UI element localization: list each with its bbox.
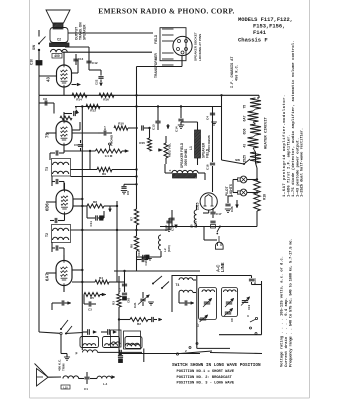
svg-text:R5: R5 bbox=[90, 296, 94, 300]
svg-text:3: 3 bbox=[247, 314, 249, 318]
svg-text:C19: C19 bbox=[247, 304, 251, 310]
svg-text:6A7: 6A7 bbox=[243, 115, 247, 121]
svg-text:SW: SW bbox=[32, 45, 36, 50]
svg-text:75: 75 bbox=[243, 105, 247, 109]
svg-text:R14: R14 bbox=[76, 97, 82, 101]
svg-text:LOOKING AT PINS: LOOKING AT PINS bbox=[198, 34, 202, 61]
svg-text:R1: R1 bbox=[64, 120, 68, 124]
svg-text:R4: R4 bbox=[99, 276, 103, 280]
svg-text:C7: C7 bbox=[196, 323, 200, 327]
svg-text:43: 43 bbox=[243, 144, 247, 148]
svg-text:43: 43 bbox=[46, 77, 51, 82]
svg-text:C4: C4 bbox=[206, 116, 210, 120]
svg-text:456 K.C.: 456 K.C. bbox=[236, 64, 240, 81]
svg-text:C10: C10 bbox=[137, 250, 141, 256]
svg-text:C10: C10 bbox=[30, 59, 34, 65]
svg-text:SPEAKER: SPEAKER bbox=[83, 24, 87, 40]
svg-text:C2: C2 bbox=[57, 38, 61, 42]
svg-text:R9: R9 bbox=[102, 172, 106, 176]
svg-text:POSITION NO. 3 - LONG WAVE: POSITION NO. 3 - LONG WAVE bbox=[177, 382, 235, 386]
svg-text:R18: R18 bbox=[263, 194, 267, 200]
svg-text:T2: T2 bbox=[45, 233, 49, 237]
svg-text:R7: R7 bbox=[130, 217, 134, 221]
svg-text:R16: R16 bbox=[103, 97, 109, 101]
svg-text:1—6D6 first I.F. amplifier.: 1—6D6 first I.F. amplifier. bbox=[287, 134, 292, 197]
svg-text:0.1 M: 0.1 M bbox=[105, 154, 113, 158]
svg-text:6D6: 6D6 bbox=[45, 203, 50, 211]
svg-text:I.F. CHASSIS AT: I.F. CHASSIS AT bbox=[231, 56, 235, 88]
svg-text:TRANSFORMER: TRANSFORMER bbox=[154, 53, 158, 78]
svg-text:SWITCH SHOWN IN LONG WAVE POSI: SWITCH SHOWN IN LONG WAVE POSITION bbox=[172, 363, 261, 368]
svg-text:C17: C17 bbox=[216, 212, 222, 216]
svg-text:L10: L10 bbox=[63, 386, 68, 389]
svg-text:EMERSON RADIO & PHONO. CORP.: EMERSON RADIO & PHONO. CORP. bbox=[98, 6, 234, 15]
svg-text:FIELD: FIELD bbox=[154, 34, 158, 44]
svg-text:C13: C13 bbox=[152, 124, 156, 130]
svg-text:C9: C9 bbox=[126, 191, 130, 195]
svg-text:R3: R3 bbox=[112, 301, 116, 305]
svg-text:C6: C6 bbox=[74, 143, 78, 147]
svg-text:C14: C14 bbox=[175, 126, 179, 132]
svg-text:(100): (100) bbox=[167, 245, 171, 252]
svg-text:C20: C20 bbox=[253, 278, 257, 284]
svg-text:L1: L1 bbox=[189, 146, 193, 150]
svg-text:C12: C12 bbox=[92, 61, 98, 65]
svg-text:1—6A7 pentagrid amplifier-modu: 1—6A7 pentagrid amplifier-modulator. bbox=[282, 94, 287, 197]
svg-text:C63: C63 bbox=[127, 297, 131, 303]
svg-text:C16: C16 bbox=[144, 260, 148, 266]
svg-text:C13: C13 bbox=[78, 57, 84, 61]
svg-text:L-4: L-4 bbox=[103, 382, 108, 386]
svg-text:R6: R6 bbox=[130, 244, 134, 248]
svg-text:LIGHTS: LIGHTS bbox=[229, 183, 233, 196]
svg-text:F153,F156,: F153,F156, bbox=[253, 24, 285, 30]
svg-text:R10: R10 bbox=[118, 122, 124, 126]
svg-text:LINE: LINE bbox=[220, 262, 225, 272]
svg-text:C3: C3 bbox=[88, 308, 92, 312]
svg-text:6A7: 6A7 bbox=[45, 273, 50, 281]
svg-text:T3: T3 bbox=[45, 167, 49, 171]
svg-text:400: 400 bbox=[54, 54, 60, 58]
svg-text:3000 OHMS: 3000 OHMS bbox=[184, 149, 188, 166]
svg-text:C8: C8 bbox=[43, 97, 47, 101]
svg-text:2000 OHMS: 2000 OHMS bbox=[207, 135, 211, 152]
svg-text:R15: R15 bbox=[139, 141, 145, 145]
svg-text:C16: C16 bbox=[206, 164, 210, 170]
svg-text:F: F bbox=[75, 352, 77, 356]
svg-text:POSITION NO.1 = SHORT WAVE: POSITION NO.1 = SHORT WAVE bbox=[177, 370, 235, 374]
svg-text:6D6: 6D6 bbox=[243, 128, 247, 134]
svg-text:1—75 diode (detector, audio am: 1—75 diode (detector, audio amplifier, a… bbox=[291, 40, 296, 197]
svg-text:R8: R8 bbox=[93, 200, 97, 204]
svg-text:F141: F141 bbox=[253, 30, 266, 36]
svg-text:C22: C22 bbox=[95, 79, 99, 85]
svg-text:Chassis F: Chassis F bbox=[238, 37, 268, 44]
svg-text:1—25Z5 dual half-wave rectifie: 1—25Z5 dual half-wave rectifier. bbox=[300, 128, 305, 197]
svg-text:C15: C15 bbox=[171, 225, 175, 231]
svg-text:+: + bbox=[169, 169, 171, 173]
svg-text:TRIM: TRIM bbox=[62, 363, 66, 371]
svg-text:C11: C11 bbox=[89, 221, 93, 227]
svg-text:SW: SW bbox=[235, 158, 240, 162]
svg-text:R2: R2 bbox=[137, 322, 141, 326]
svg-text:MODELS F117,F122,: MODELS F117,F122, bbox=[238, 17, 293, 23]
svg-text:C26: C26 bbox=[230, 206, 234, 212]
svg-text:C21: C21 bbox=[133, 302, 137, 308]
svg-text:POSITION NO. 2: BROADCAST: POSITION NO. 2: BROADCAST bbox=[177, 376, 233, 380]
svg-text:T4: T4 bbox=[176, 283, 180, 287]
svg-text:C7: C7 bbox=[103, 126, 107, 130]
svg-text:2: 2 bbox=[185, 349, 187, 353]
svg-text:Voltage rating . . . . 105-125: Voltage rating . . . . 105-125 volts, a.… bbox=[280, 256, 285, 367]
svg-text:C8: C8 bbox=[230, 318, 234, 322]
svg-text:25Z5: 25Z5 bbox=[243, 155, 247, 163]
svg-text:Current drain . . . . 0.4 amp.: Current drain . . . . 0.4 amp. bbox=[284, 297, 289, 367]
svg-text:R13: R13 bbox=[90, 109, 96, 113]
svg-text:Frequency range . . 540 to 575: Frequency range . . 540 to 575 kc, 540 t… bbox=[289, 239, 294, 367]
svg-text:HEATER CIRCUIT: HEATER CIRCUIT bbox=[265, 116, 269, 149]
svg-text:C1: C1 bbox=[84, 387, 88, 391]
svg-text:MEG VOL: MEG VOL bbox=[168, 143, 172, 157]
